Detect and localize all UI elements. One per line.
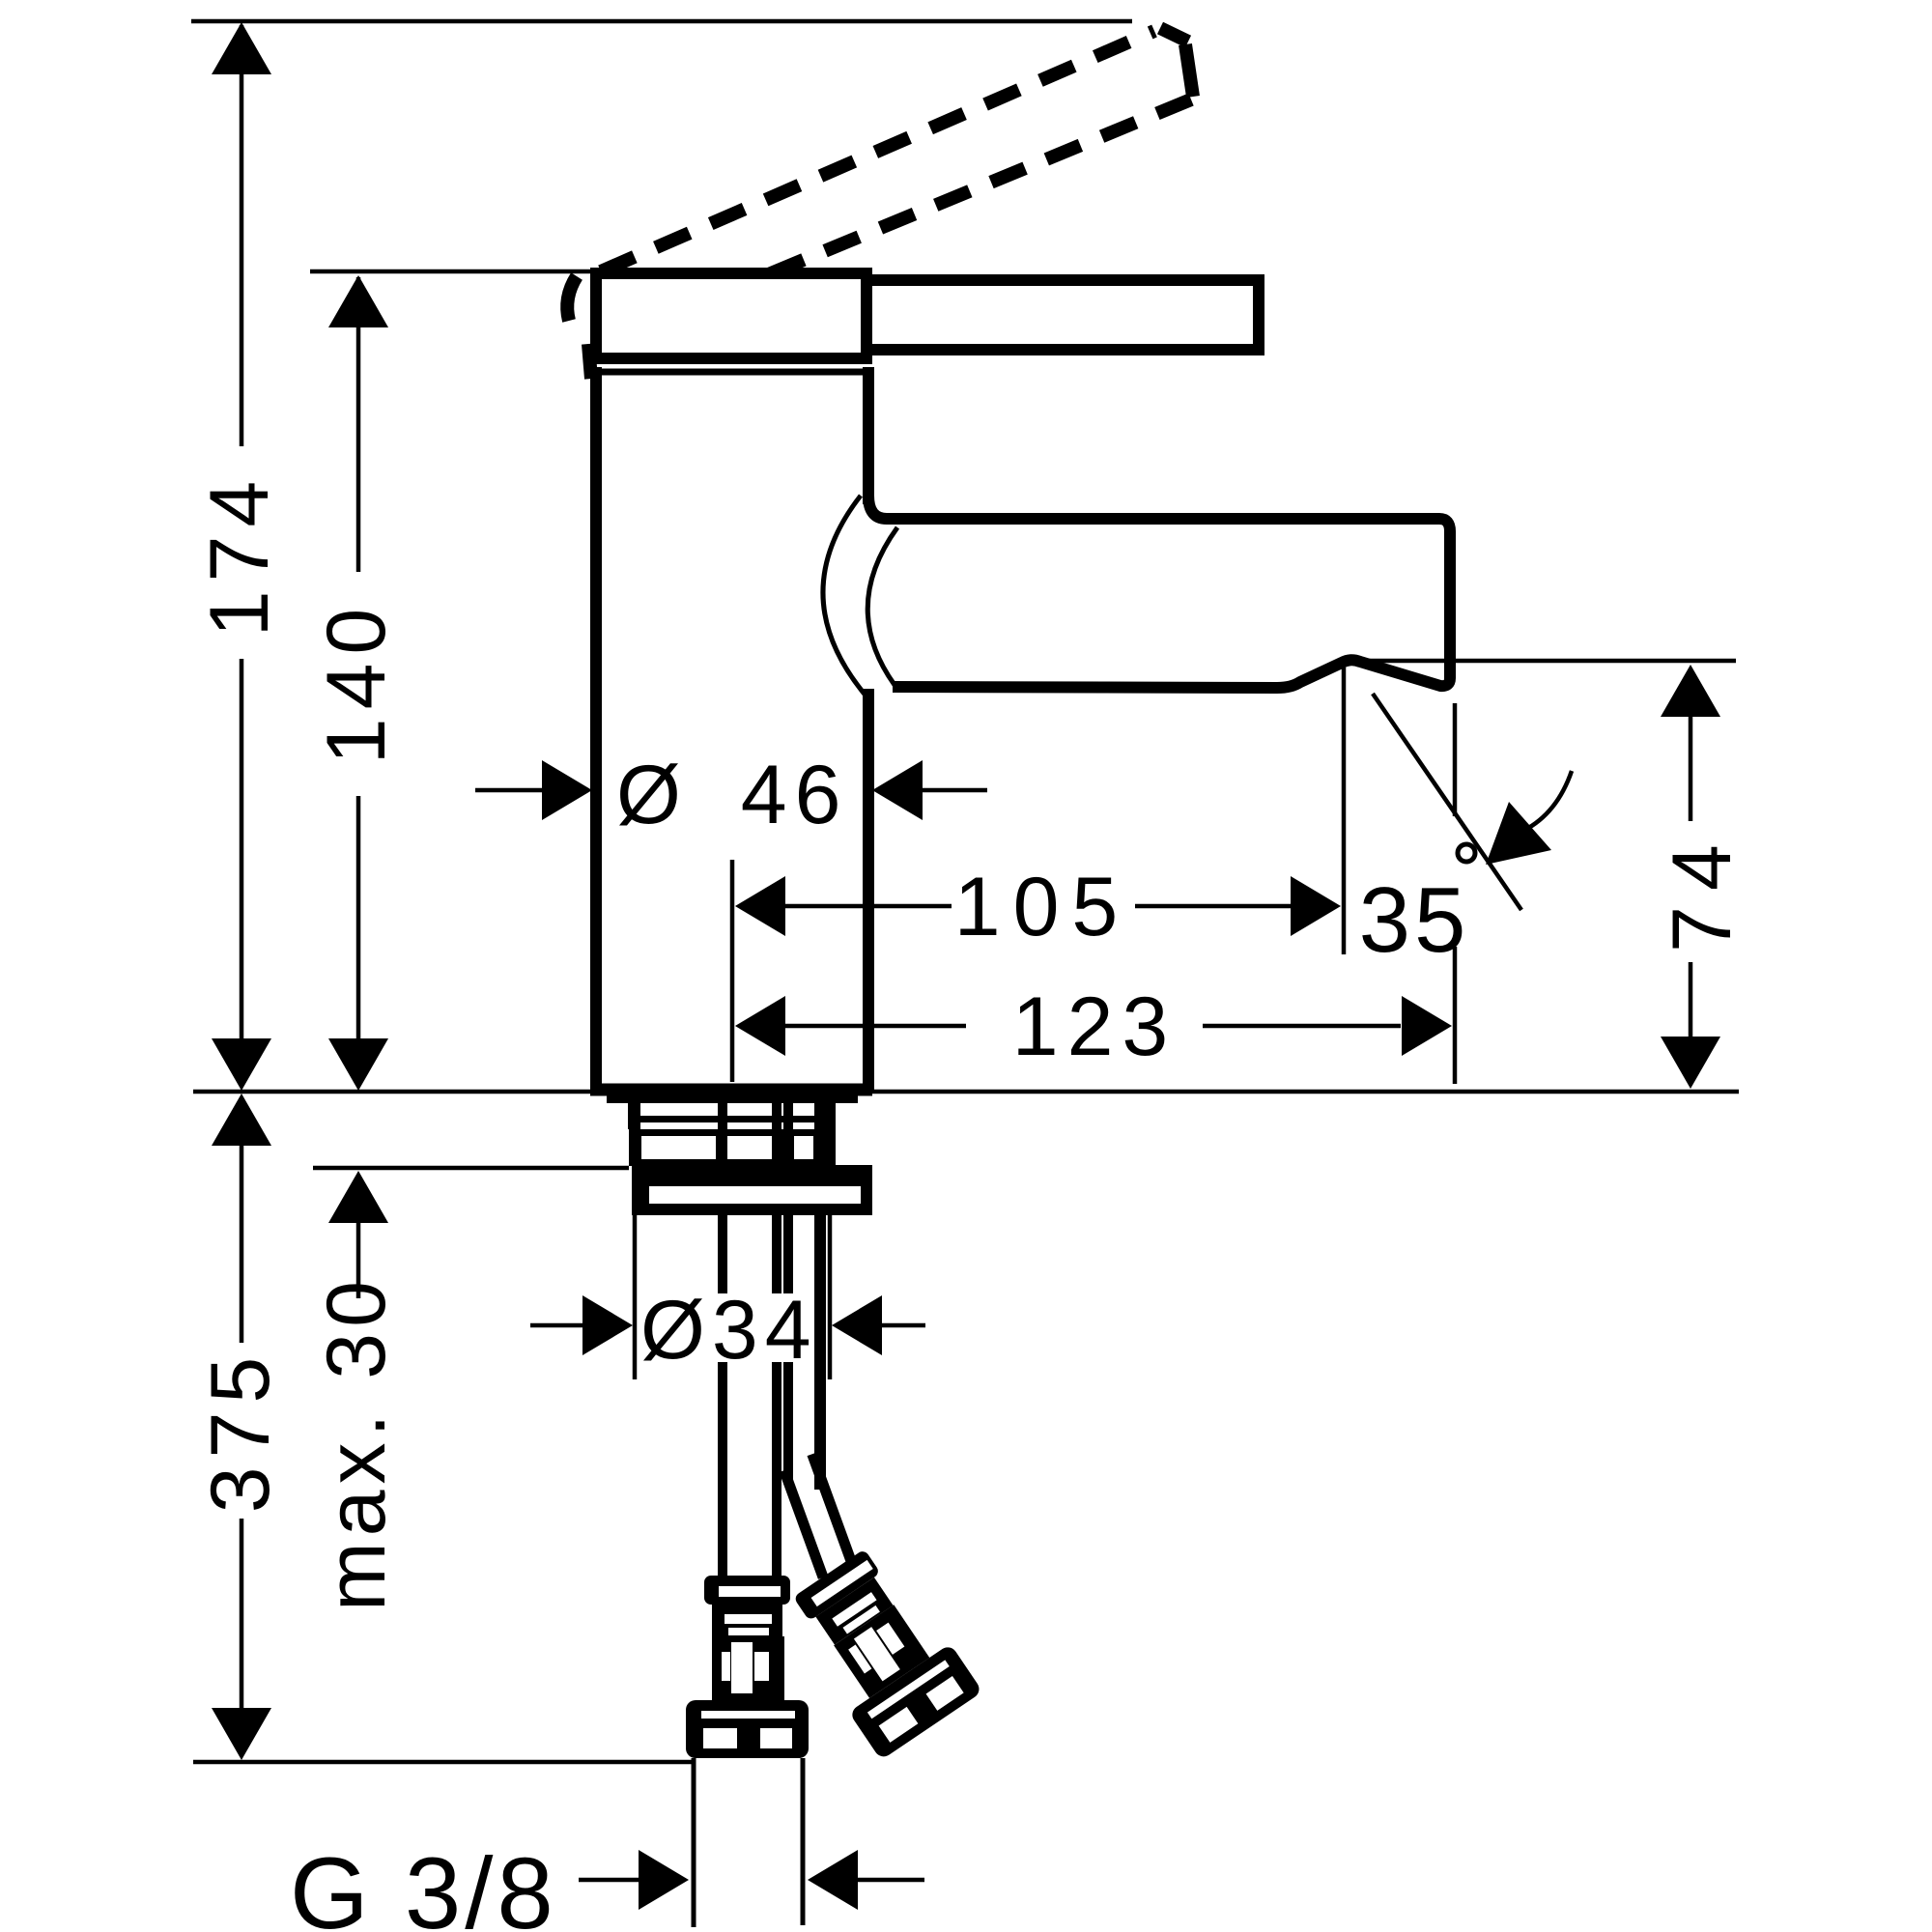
- dimension 140 line lower: [356, 796, 361, 1041]
- mounting collar divider: [628, 1116, 836, 1122]
- mounting collar right wall: [823, 1103, 836, 1129]
- arrow 74 top: [1661, 665, 1720, 717]
- angled connector body: [834, 1605, 929, 1698]
- 105 extension line right: [1342, 668, 1347, 954]
- 375 bottom extension line: [193, 1760, 692, 1765]
- max30 tail line: [356, 1223, 361, 1298]
- body right edge upper: [863, 367, 874, 504]
- mounting collar left wall: [628, 1103, 640, 1129]
- base reference line: [193, 1090, 1739, 1094]
- supply pipe left wall: [692, 1758, 696, 1927]
- svg-text:G 3/8: G 3/8: [290, 1837, 557, 1932]
- 105 dim line right: [1135, 904, 1293, 909]
- svg-text:max. 30: max. 30: [310, 1275, 403, 1611]
- svg-text:74: 74: [1656, 829, 1748, 952]
- top extension line: [191, 19, 1132, 24]
- hose 1 right wall: [772, 1103, 781, 1580]
- dimension 174 line upper: [240, 25, 244, 446]
- spout outline: [868, 496, 1450, 688]
- diameter 34 left extension line: [633, 1215, 638, 1379]
- 35 degree slant line: [1373, 694, 1521, 910]
- max 30 extension line: [313, 1166, 629, 1171]
- arrow 174 bottom: [212, 1038, 271, 1091]
- spout-body inner fillet arc: [867, 527, 897, 685]
- angled connector stack: [778, 1539, 982, 1760]
- arrow d34 left: [582, 1295, 633, 1355]
- 123 dim line right: [1203, 1024, 1401, 1029]
- arrow 74 bottom: [1661, 1037, 1720, 1089]
- 105 dim line left: [785, 904, 952, 909]
- body bottom edge: [590, 1084, 872, 1096]
- arrow d46 left: [542, 760, 592, 820]
- arrow 375 top: [212, 1094, 271, 1146]
- 74 extension line: [1364, 659, 1736, 664]
- 123 extension line right upper: [1453, 703, 1458, 816]
- arrow 140 top: [328, 275, 388, 327]
- d34 left tail: [530, 1323, 584, 1328]
- hose 1 crimp collar: [704, 1576, 790, 1605]
- 123 extension line right lower: [1453, 947, 1458, 1084]
- diameter 34 right extension line: [828, 1215, 833, 1379]
- arrow 375 bottom: [212, 1708, 271, 1760]
- 105 extension line left (axis): [730, 860, 735, 1082]
- hose 2 right wall: [814, 1103, 826, 1490]
- spout-body outer fillet arc: [823, 496, 867, 696]
- hose 2 left wall: [783, 1103, 793, 1482]
- dimension 174 line lower: [240, 659, 244, 1041]
- mounting flange: [632, 1165, 872, 1215]
- diameter 46 dimension right tail: [918, 788, 987, 793]
- arrow 174 top: [212, 22, 271, 74]
- base ring under body: [607, 1095, 858, 1103]
- 140 extension line: [310, 270, 592, 274]
- white halo behind diameter 34 label: [636, 1293, 812, 1362]
- angled hose neck: [815, 1577, 893, 1645]
- body right edge lower: [863, 689, 874, 1090]
- arrow G38 left: [639, 1850, 689, 1910]
- dashed raised handle outline: [567, 28, 1193, 379]
- arrow G38 right: [808, 1850, 858, 1910]
- 35 degree leader arrowhead: [1486, 802, 1551, 865]
- svg-text:105: 105: [954, 861, 1131, 953]
- degree symbol: [1458, 844, 1475, 862]
- shank nut block: [629, 1129, 836, 1166]
- angled hose crimp collar: [793, 1548, 881, 1621]
- arrow 140 bottom: [328, 1038, 388, 1091]
- arrow d46 right: [872, 760, 923, 820]
- arrow 123 right: [1402, 996, 1452, 1056]
- 123 dim line left: [785, 1024, 966, 1029]
- svg-text:Ø34: Ø34: [640, 1284, 818, 1377]
- 74 dim line upper: [1689, 715, 1693, 821]
- G38 left tail: [579, 1878, 642, 1883]
- 35 degree leader arc: [1523, 771, 1572, 831]
- dimension 375 line upper: [240, 1097, 244, 1343]
- hose 2 bend and angled run: [778, 1452, 859, 1579]
- svg-text:35: 35: [1359, 868, 1470, 972]
- svg-text:375: 375: [194, 1349, 287, 1514]
- dimension 375 line lower: [240, 1519, 244, 1708]
- svg-text:174: 174: [193, 472, 286, 638]
- 74 dim line lower: [1689, 962, 1693, 1037]
- diameter 46 dimension left tail: [475, 788, 551, 793]
- hose 1 connector neck: [712, 1604, 782, 1637]
- supply pipe right wall: [801, 1758, 806, 1925]
- angled connector nut: [848, 1643, 982, 1760]
- hose 1 connector nut: [686, 1700, 809, 1758]
- hose 1 connector body: [712, 1636, 784, 1700]
- svg-text:Ø 46: Ø 46: [616, 749, 848, 841]
- arrow 105 right: [1291, 876, 1341, 936]
- arrow max30: [328, 1171, 388, 1223]
- hose 1 left wall: [718, 1103, 727, 1580]
- svg-text:123: 123: [1012, 980, 1178, 1073]
- svg-text:140: 140: [310, 600, 403, 765]
- under-cap joint line: [599, 369, 864, 376]
- handle cap: [596, 273, 867, 358]
- arrow 123 left: [735, 996, 785, 1056]
- arrow 105 left: [735, 876, 785, 936]
- d34 right tail: [882, 1323, 925, 1328]
- body left edge: [590, 367, 602, 1090]
- arrow d34 right: [832, 1295, 882, 1355]
- G38 right tail: [858, 1878, 924, 1883]
- lever arm: [867, 280, 1259, 350]
- dimension 140 line upper: [356, 277, 361, 572]
